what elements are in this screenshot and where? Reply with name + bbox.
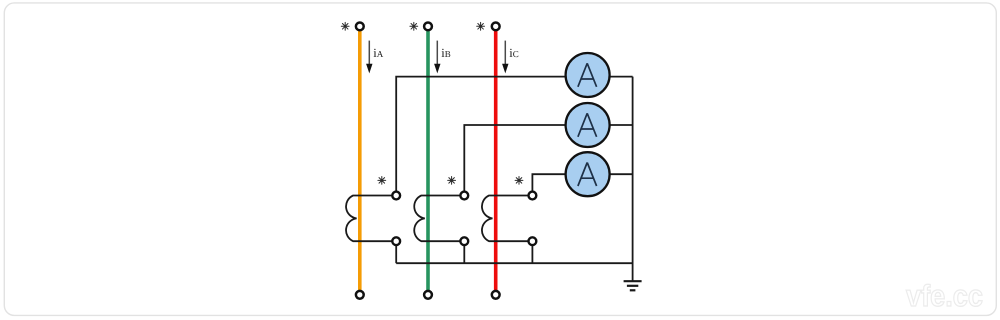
- ground: [624, 281, 642, 290]
- CT TA2 secondary winding: [414, 196, 460, 242]
- phase A conductor (orange): [358, 31, 362, 291]
- polarity mark phase A top: [341, 22, 349, 30]
- polarity mark phase B top: [410, 22, 418, 30]
- current arrow iB: [434, 41, 440, 74]
- phase B conductor (green): [426, 31, 430, 291]
- wire ammeter PA3 right to bus: [610, 173, 633, 175]
- polarity mark CT TA2: [448, 177, 456, 185]
- polarity mark CT TA3: [515, 177, 523, 185]
- wire ammeter PA2 left to CT TA2 top terminal: [464, 125, 565, 191]
- CT TA1 top secondary terminal: [392, 192, 400, 200]
- CT TA3 bottom secondary terminal: [529, 237, 537, 245]
- CT TA1 bottom secondary terminal: [392, 237, 400, 245]
- phase C bottom terminal: [492, 291, 500, 299]
- wire ammeter PA1 left to CT TA1 top terminal: [396, 77, 566, 192]
- CT TA1 secondary winding: [346, 196, 392, 242]
- polarity mark CT TA1: [378, 177, 386, 185]
- CT TA2 top secondary terminal: [460, 192, 468, 200]
- phase B bottom terminal: [424, 291, 432, 299]
- CT TA3 top secondary terminal: [529, 192, 537, 200]
- phase A bottom terminal: [356, 291, 364, 299]
- svg-text:A: A: [377, 49, 384, 59]
- wire common secondary bus: [396, 262, 632, 264]
- current arrow iC: [502, 41, 508, 74]
- ammeter PA1: [566, 53, 610, 97]
- wire ammeter PA1 right to bus: [609, 76, 632, 78]
- wire right vertical bus to ground: [632, 77, 634, 282]
- svg-text:vfe.cc: vfe.cc: [906, 280, 983, 313]
- current arrow iA: [366, 41, 372, 74]
- wire ammeter PA2 right to bus: [610, 124, 633, 126]
- ammeter PA3: [566, 152, 610, 196]
- polarity mark phase C top: [477, 22, 485, 30]
- svg-text:B: B: [445, 49, 451, 59]
- CT TA3 secondary winding: [482, 196, 528, 242]
- svg-text:C: C: [513, 49, 519, 59]
- wire CT TA2 bottom terminal to common bus: [463, 246, 465, 264]
- phase C top terminal: [492, 23, 500, 31]
- CT TA2 bottom secondary terminal: [460, 237, 468, 245]
- wire CT TA1 bottom terminal to common bus: [395, 246, 397, 264]
- wire ammeter PA3 left to CT TA3 top terminal: [532, 174, 565, 191]
- wire CT TA3 bottom terminal to common bus: [531, 246, 533, 264]
- ammeter PA2: [566, 103, 610, 147]
- phase A top terminal: [356, 23, 364, 31]
- phase C conductor (red): [494, 31, 498, 291]
- phase B top terminal: [424, 23, 432, 31]
